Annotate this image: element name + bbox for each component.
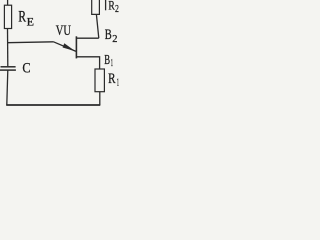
wire: R1 bottom lead bbox=[99, 92, 101, 105]
resistor R2 (top edge cropped) bbox=[92, 0, 100, 14]
resistor R1 bbox=[95, 69, 104, 92]
wire: stub top right bbox=[105, 0, 107, 10]
wire: emitter horizontal bbox=[8, 41, 54, 44]
wire: bottom rail bbox=[6, 104, 100, 106]
label B2 bbox=[105, 27, 118, 45]
svg-text:B: B bbox=[105, 27, 112, 43]
wire: C lower lead bbox=[7, 70, 8, 105]
transistor VU bar bbox=[75, 36, 77, 58]
svg-text:E: E bbox=[27, 14, 34, 28]
svg-text:R: R bbox=[18, 9, 26, 26]
wire: B2 to R2 lead bbox=[96, 14, 98, 38]
label RE bbox=[18, 9, 34, 29]
svg-text:VU: VU bbox=[56, 23, 71, 39]
wire: left rail RE to C bbox=[7, 29, 9, 67]
capacitor C bottom plate bbox=[0, 69, 16, 71]
label R2 bbox=[108, 0, 119, 15]
svg-text:C: C bbox=[22, 60, 30, 76]
svg-text:1: 1 bbox=[111, 57, 113, 69]
label R1 bbox=[108, 71, 119, 89]
label B1 bbox=[104, 53, 113, 69]
svg-text:2: 2 bbox=[112, 33, 117, 45]
svg-text:2: 2 bbox=[115, 3, 119, 15]
wire: B2 lead horizontal bbox=[76, 37, 98, 39]
resistor RE bbox=[4, 5, 11, 28]
capacitor C top plate bbox=[1, 66, 16, 68]
wire: R_E top lead bbox=[7, 0, 9, 5]
svg-text:B: B bbox=[104, 53, 110, 68]
transistor VU emitter arrowhead bbox=[63, 43, 76, 51]
svg-text:1: 1 bbox=[117, 77, 119, 89]
wire: emitter diagonal bbox=[54, 42, 77, 52]
wire: R1 top lead / B1 corner bbox=[76, 57, 99, 69]
svg-text:R: R bbox=[108, 71, 115, 87]
